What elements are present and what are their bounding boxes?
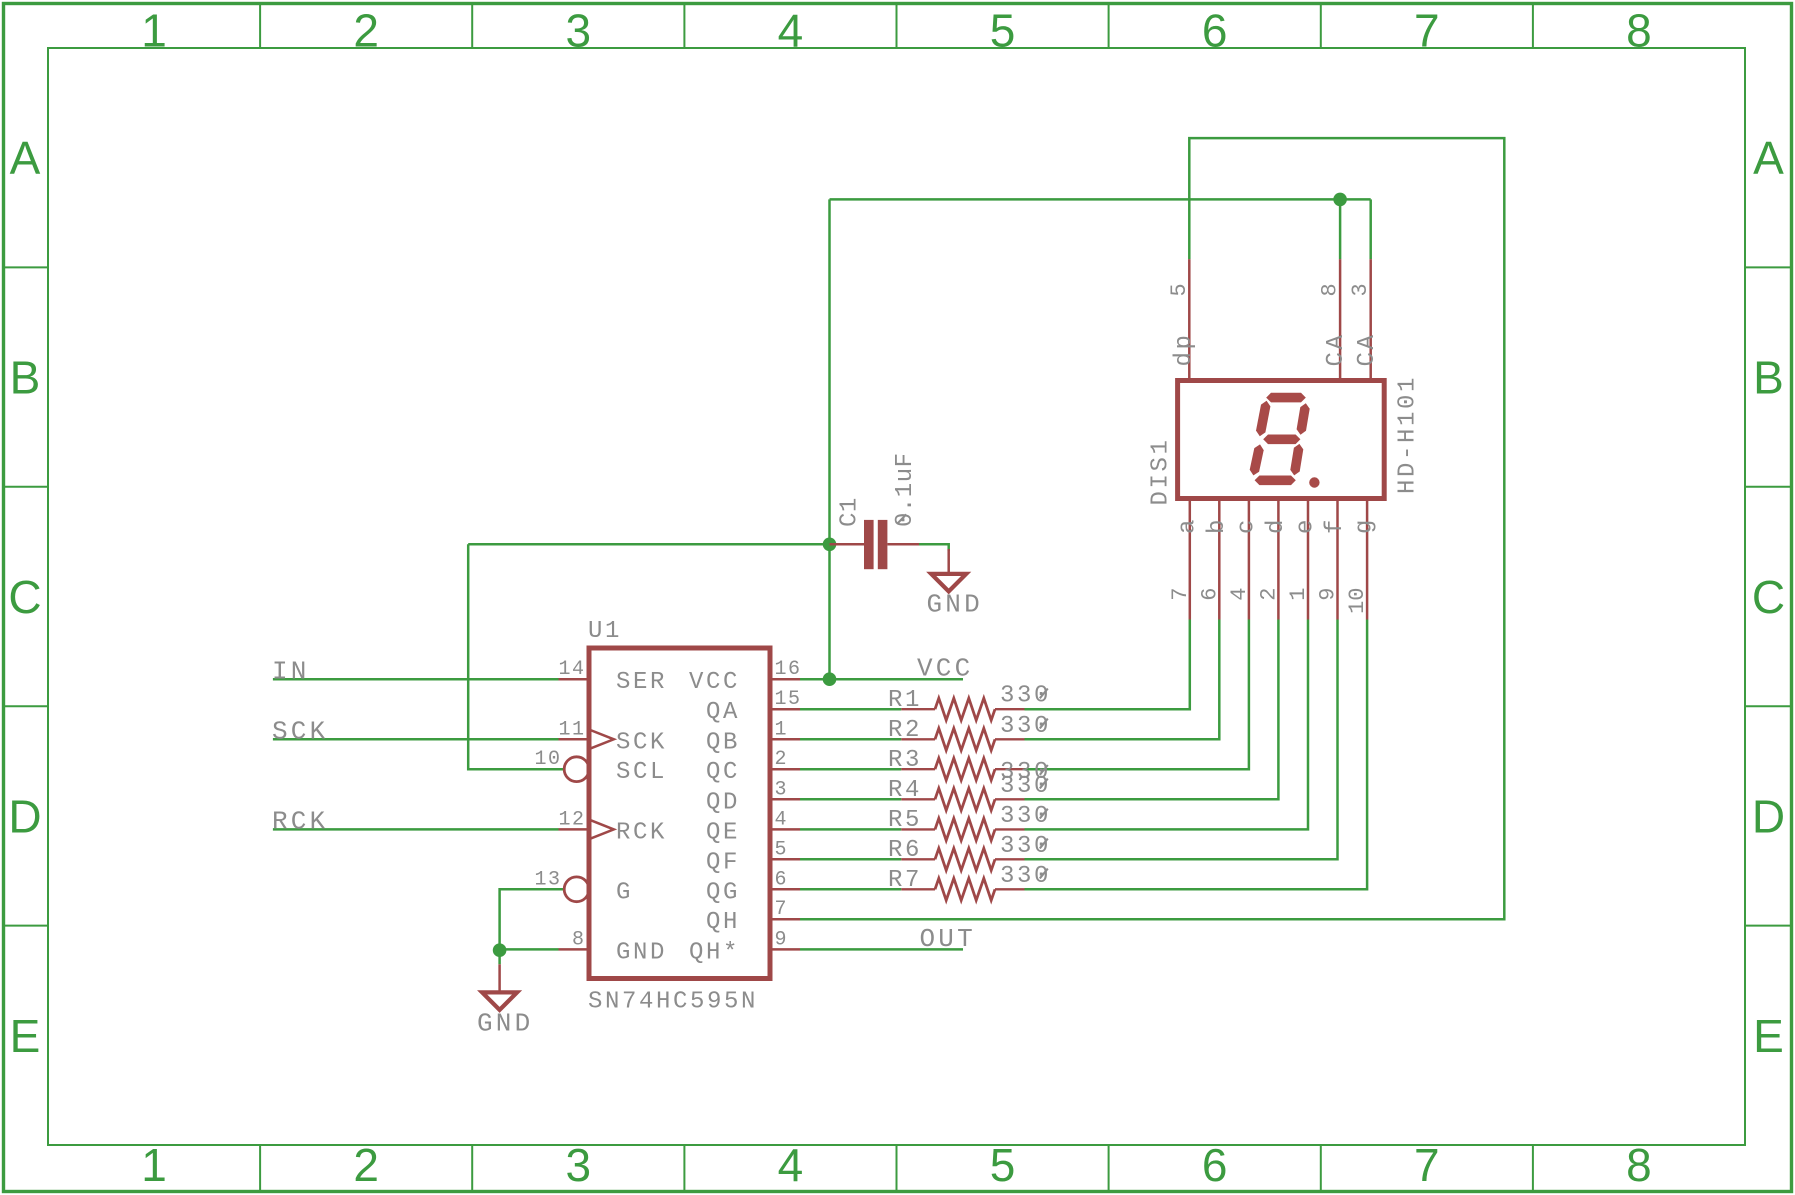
svg-text:2: 2 xyxy=(1256,588,1281,601)
svg-text:5: 5 xyxy=(775,838,789,861)
svg-text:R4: R4 xyxy=(888,777,922,804)
svg-text:HD-H101: HD-H101 xyxy=(1395,375,1422,494)
svg-text:SER: SER xyxy=(616,669,667,696)
svg-text:330: 330 xyxy=(1000,773,1051,800)
svg-text:13: 13 xyxy=(534,868,561,891)
svg-text:SCL: SCL xyxy=(616,759,667,786)
svg-text:QB: QB xyxy=(706,729,740,756)
svg-text:A: A xyxy=(1753,132,1784,184)
svg-text:1: 1 xyxy=(1286,588,1311,601)
svg-text:DIS1: DIS1 xyxy=(1148,437,1175,505)
svg-text:14: 14 xyxy=(558,658,585,681)
svg-text:5: 5 xyxy=(990,1139,1016,1191)
svg-text:B: B xyxy=(1753,352,1784,404)
svg-text:C: C xyxy=(8,571,41,623)
svg-text:8: 8 xyxy=(1626,1139,1652,1191)
svg-text:b: b xyxy=(1204,517,1231,534)
svg-text:E: E xyxy=(1753,1010,1784,1062)
svg-text:QC: QC xyxy=(706,759,740,786)
svg-text:7: 7 xyxy=(775,898,789,921)
svg-text:330: 330 xyxy=(1000,863,1051,890)
svg-text:D: D xyxy=(1752,790,1785,842)
svg-text:7: 7 xyxy=(1414,1139,1440,1191)
svg-text:11: 11 xyxy=(558,718,585,741)
svg-text:SCK: SCK xyxy=(616,729,667,756)
svg-text:R5: R5 xyxy=(888,807,922,834)
svg-text:1: 1 xyxy=(141,1139,167,1191)
svg-text:OUT: OUT xyxy=(920,924,976,954)
svg-text:1: 1 xyxy=(141,5,167,57)
svg-text:RCK: RCK xyxy=(616,819,667,846)
svg-text:2: 2 xyxy=(775,748,789,771)
svg-text:G: G xyxy=(616,879,633,906)
svg-text:R1: R1 xyxy=(888,687,922,714)
svg-text:VCC: VCC xyxy=(917,654,973,684)
svg-text:A: A xyxy=(10,132,41,184)
svg-text:9: 9 xyxy=(775,928,789,951)
svg-text:12: 12 xyxy=(558,808,585,831)
svg-text:4: 4 xyxy=(778,1139,804,1191)
svg-text:c: c xyxy=(1233,517,1260,534)
svg-text:SCK: SCK xyxy=(272,717,328,747)
svg-text:6: 6 xyxy=(1202,1139,1228,1191)
svg-text:8: 8 xyxy=(1626,5,1652,57)
svg-text:QF: QF xyxy=(706,849,740,876)
svg-text:R3: R3 xyxy=(888,747,922,774)
svg-text:R6: R6 xyxy=(888,837,922,864)
svg-text:U1: U1 xyxy=(588,618,622,645)
svg-text:6: 6 xyxy=(1197,588,1222,601)
svg-text:e: e xyxy=(1293,517,1320,534)
svg-text:IN: IN xyxy=(272,656,310,686)
svg-text:3: 3 xyxy=(566,5,592,57)
svg-text:QG: QG xyxy=(706,879,740,906)
svg-text:330: 330 xyxy=(1000,683,1051,710)
svg-text:9: 9 xyxy=(1316,588,1341,601)
svg-text:QH: QH xyxy=(706,909,740,936)
svg-text:330: 330 xyxy=(1000,803,1051,830)
svg-text:QE: QE xyxy=(706,819,740,846)
svg-text:VCC: VCC xyxy=(689,669,740,696)
svg-text:7: 7 xyxy=(1168,588,1193,601)
svg-text:16: 16 xyxy=(775,658,802,681)
svg-text:6: 6 xyxy=(775,868,789,891)
svg-text:g: g xyxy=(1352,517,1379,534)
svg-text:GND: GND xyxy=(927,590,983,620)
svg-text:D: D xyxy=(8,790,41,842)
svg-text:4: 4 xyxy=(775,808,789,831)
svg-text:3: 3 xyxy=(566,1139,592,1191)
svg-text:SN74HC595N: SN74HC595N xyxy=(588,989,758,1016)
svg-text:dp: dp xyxy=(1171,332,1198,366)
svg-text:4: 4 xyxy=(778,5,804,57)
svg-text:3: 3 xyxy=(1348,283,1373,296)
svg-text:GND: GND xyxy=(616,939,667,966)
svg-text:GND: GND xyxy=(477,1009,533,1039)
svg-text:5: 5 xyxy=(1167,283,1192,296)
svg-text:3: 3 xyxy=(775,778,789,801)
svg-text:f: f xyxy=(1322,517,1349,534)
svg-text:E: E xyxy=(10,1010,41,1062)
svg-text:d: d xyxy=(1263,517,1290,534)
svg-text:R7: R7 xyxy=(888,867,922,894)
svg-text:4: 4 xyxy=(1227,588,1252,601)
svg-text:C: C xyxy=(1752,571,1785,623)
svg-text:2: 2 xyxy=(353,1139,379,1191)
svg-text:QA: QA xyxy=(706,699,740,726)
svg-text:B: B xyxy=(10,352,41,404)
svg-text:10: 10 xyxy=(534,748,561,771)
svg-text:8: 8 xyxy=(572,928,586,951)
svg-text:5: 5 xyxy=(990,5,1016,57)
svg-text:CA: CA xyxy=(1354,332,1381,366)
svg-text:QH*: QH* xyxy=(689,939,740,966)
svg-text:CA: CA xyxy=(1323,332,1350,366)
svg-text:a: a xyxy=(1174,517,1201,534)
svg-text:QD: QD xyxy=(706,789,740,816)
svg-text:10: 10 xyxy=(1345,588,1370,614)
svg-text:15: 15 xyxy=(775,688,802,711)
svg-text:7: 7 xyxy=(1414,5,1440,57)
svg-text:C1: C1 xyxy=(837,497,864,527)
svg-text:8: 8 xyxy=(1318,283,1343,296)
svg-text:6: 6 xyxy=(1202,5,1228,57)
svg-text:2: 2 xyxy=(353,5,379,57)
svg-text:RCK: RCK xyxy=(272,807,328,837)
svg-text:1: 1 xyxy=(775,718,789,741)
svg-text:330: 330 xyxy=(1000,713,1051,740)
svg-text:330: 330 xyxy=(1000,833,1051,860)
svg-text:R2: R2 xyxy=(888,717,922,744)
